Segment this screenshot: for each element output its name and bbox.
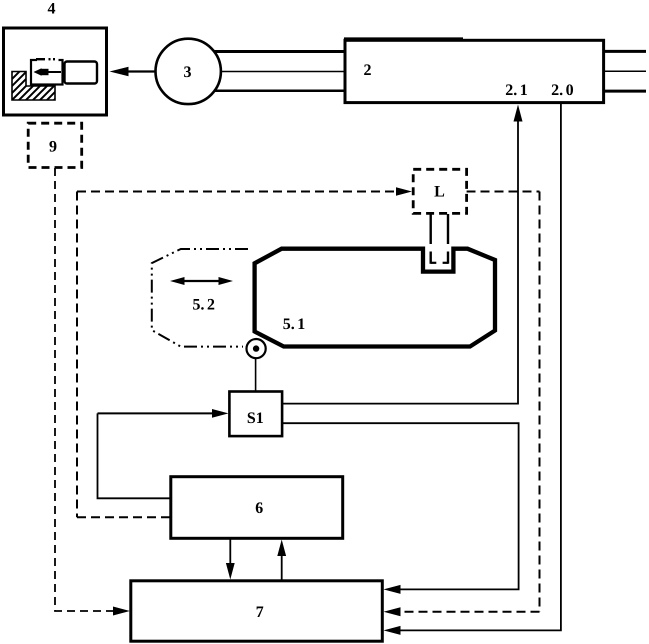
wire three-line shaft right (box 2 to edge) [603, 51, 646, 91]
wire into S1 from left with arrow [98, 409, 229, 418]
controller box 6 [171, 477, 343, 539]
computer box 7 [131, 581, 382, 641]
label 4 [48, 3, 55, 14]
roller node on cam [247, 339, 266, 358]
solenoid L (dashed box) [413, 169, 466, 213]
wire S1 to box 7 (right top arrow) [282, 423, 519, 594]
phantom cam 5.2 (dash-dot outline) [152, 249, 248, 347]
dashed enclosure top edge with arrow into L [77, 187, 412, 195]
tool slide rectangle inside block 4 [31, 60, 63, 85]
box 2 (spindle block) [345, 40, 604, 102]
box 9 (dashed) [28, 123, 81, 167]
dashed enclosure right edge [539, 192, 541, 612]
arrow inside tool slide [34, 68, 62, 75]
dashed enclosure left edge [76, 192, 78, 518]
wire roller to S1 [255, 358, 257, 392]
label 2 [364, 64, 371, 75]
label 5.1 [283, 318, 304, 329]
wire box 7 up to box 6 with up arrow [277, 540, 286, 582]
dashed enclosure bottom-left segment into box 6 [77, 516, 171, 518]
solenoid plunger (dashed) [431, 214, 448, 264]
label 3 [184, 66, 191, 77]
cam 5.1 (thick outline) [255, 249, 495, 347]
label L [434, 186, 444, 196]
wire elbow from box 6 left to S1 line [98, 413, 172, 498]
relay S1 box [229, 392, 282, 437]
dashed enclosure segment L box to right edge [467, 191, 540, 193]
tailstock rounded rect inside block 4 [65, 62, 98, 84]
wire box 6 down to box 7 with down arrow [226, 538, 235, 580]
double arrow inside 5.2 [170, 277, 233, 285]
wire 2.0 from box 2 down to box 7 (right bottom arrow) [384, 103, 561, 635]
label 6 [256, 502, 263, 513]
dashed wire into box 7 right side (middle arrow) [384, 607, 540, 616]
circle 3 (motor) [156, 39, 221, 104]
label 2.0 [552, 84, 573, 95]
label 7 [257, 607, 264, 617]
wire S1 to box 2 (2.1) with up arrow [282, 105, 523, 404]
hatched workpiece inside block 4 [12, 72, 55, 101]
dash-dot centerline on top edge of tool slide [36, 58, 59, 63]
label 2.1 [506, 84, 527, 95]
label 9 [49, 141, 56, 152]
label S1 [248, 412, 263, 423]
thickened top edge segment of box 2 [344, 37, 463, 39]
arrow from circle 3 into block 4 [110, 67, 156, 77]
block 4 (tool unit box) [4, 28, 107, 115]
label 5.2 [193, 299, 214, 310]
dashed wire from box 9 down and into box 7 [55, 168, 130, 616]
wire three-line shaft left (circle 3 to box 2) [196, 52, 346, 91]
